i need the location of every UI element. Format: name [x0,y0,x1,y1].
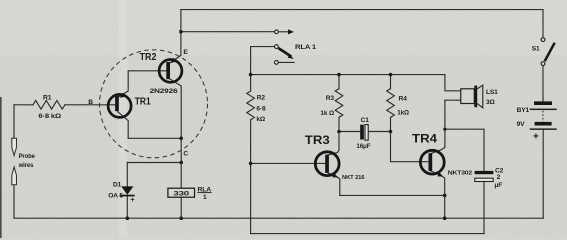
svg-text:6·8 kΩ: 6·8 kΩ [38,113,62,120]
svg-text:D1: D1 [113,182,122,189]
svg-text:RLA 1: RLA 1 [295,44,317,51]
svg-text:+: + [533,132,539,143]
wire top rail to switch S1 [542,10,544,38]
wire R1 left lead [14,104,33,106]
wire negative supply rail (bottom) [14,217,543,219]
svg-text:1k Ω: 1k Ω [320,110,334,117]
wire R2 bottom to TR3 base node [250,120,252,164]
wire lower probe to negative rail [13,185,15,218]
svg-text:TR3: TR3 [305,135,330,147]
wire top positive rail [181,9,543,11]
transistor TR4 [420,150,444,176]
svg-text:R3: R3 [326,95,335,102]
wire S1 to battery [542,66,544,102]
svg-text:R1: R1 [43,94,52,101]
wire TR2 emitter riser to top rail [169,10,181,64]
svg-text:wires: wires [18,162,34,169]
wire R1 to TR1 base (node B) [65,104,115,106]
capacitor C1 [360,125,368,141]
svg-text:B: B [88,99,93,106]
resistor R4 zigzag [387,89,395,118]
resistor R3 zigzag [335,89,343,118]
wire emitter bus TR3-TR4 [340,194,445,196]
svg-text:Probe: Probe [19,153,36,160]
svg-text:NKT302: NKT302 [448,170,472,176]
resistor R2 zigzag [247,91,255,120]
svg-text:R2: R2 [257,95,266,102]
loudspeaker LS1 [461,85,483,108]
svg-text:6·8: 6·8 [256,105,266,112]
svg-text:S1: S1 [532,45,540,52]
wire mid supply rail to speaker [251,74,445,76]
svg-text:LS1: LS1 [486,89,498,96]
wire C1 left lead [339,131,360,133]
svg-text:9V: 9V [517,121,526,128]
transistor TR3 [315,152,339,178]
wire R3 top lead [338,75,340,89]
dashed outline around TR1/TR2 pair [100,50,208,158]
diode D1 [120,186,135,196]
svg-text:16μF: 16μF [356,143,370,150]
wire speaker lower terminal [445,99,461,101]
wire relay coil bottom lead [180,197,182,218]
svg-text:3Ω: 3Ω [486,99,496,106]
wire node C lower link (diode branch) [127,162,181,164]
svg-text:C: C [183,151,188,158]
svg-text:+: + [130,195,135,204]
wire TR3 emitter drop [327,172,340,195]
wire battery negative to rail [542,130,544,218]
svg-text:kΩ: kΩ [256,116,266,123]
svg-text:TR2: TR2 [140,51,157,63]
svg-text:NKT 216: NKT 216 [342,175,365,181]
wire TR1 collector to TR2 base [118,71,167,97]
scan edge artifact [0,97,2,238]
svg-text:OA 5: OA 5 [108,193,123,200]
battery BY1 [530,101,557,142]
wire speaker feed from mid rail [445,75,461,91]
wire TR4 base L-link [391,132,429,162]
wire TR1 emitter down to node C link [118,112,129,139]
wire node C upper link [128,137,181,139]
wire TR3 base [251,162,326,164]
wire feedback column down to lower rail [250,163,252,233]
wire rail to relay contact RLA1 [181,31,274,33]
svg-text:R4: R4 [399,95,408,102]
svg-text:μF: μF [494,182,502,189]
wire TR2 collector down to relay coil [169,79,181,189]
probe wire upper tip [12,138,17,155]
svg-text:2: 2 [497,174,501,181]
capacitor C2 [475,171,494,182]
svg-text:1: 1 [203,194,207,201]
wire diode D1 anode lead [126,163,128,187]
wire probe-to-R1 left vertical [13,105,15,139]
relay contact RLA1 [275,29,295,64]
switch S1 [541,38,555,66]
svg-text:330: 330 [173,191,189,198]
wire RLA1 moving contact to R2 column [251,47,275,75]
svg-text:2N2926: 2N2926 [150,88,178,95]
relay designator RLA/1 [197,186,211,201]
svg-text:TR1: TR1 [135,95,151,107]
wire rail to R2 top [250,75,252,91]
svg-text:1kΩ: 1kΩ [397,110,409,117]
wire C2 bottom lead [483,182,485,234]
wire R3 bottom to C1 node [338,117,340,131]
svg-text:E: E [183,49,188,56]
transistor TR1 [108,93,131,118]
wire emitter bus to negative rail [444,195,446,218]
svg-text:TR4: TR4 [412,133,438,145]
wire diode D1 cathode to rail [126,196,128,218]
svg-text:C1: C1 [361,117,370,124]
wire R4 bottom to C1 node [390,117,392,131]
wire TR4 collector riser / speaker return [430,100,445,154]
wire TR3 collector riser [327,132,339,156]
wire lower feedback rail [251,233,484,235]
relay coil 330 box [168,188,195,197]
resistor R1 zigzag [33,101,65,110]
svg-text:BY1: BY1 [517,107,530,114]
probe wire lower tip [12,167,17,185]
transistor TR2 [159,58,182,83]
wire R4 top lead [390,75,392,89]
wire C2 top link [445,129,484,171]
wire TR4 emitter drop [430,171,445,196]
wire C1 right lead [369,131,391,133]
